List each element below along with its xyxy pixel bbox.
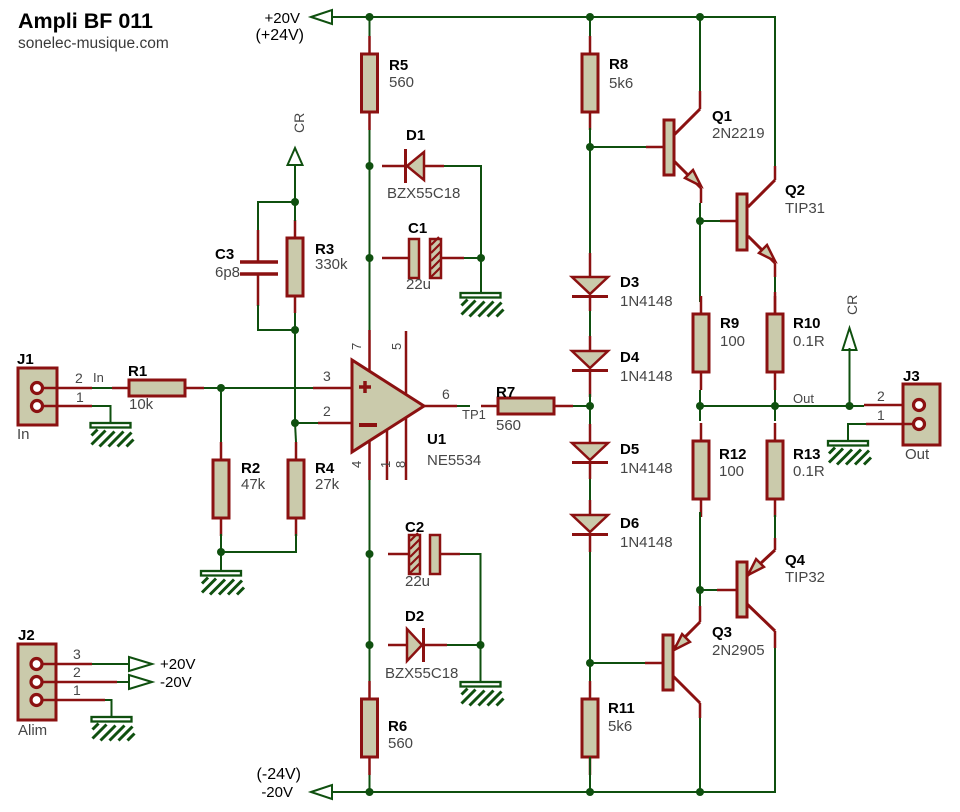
wire Q1 emitter to Q2 base node bbox=[699, 203, 701, 221]
svg-text:10k: 10k bbox=[129, 396, 154, 413]
svg-text:CR: CR bbox=[291, 113, 307, 133]
svg-text:27k: 27k bbox=[315, 476, 340, 493]
power arrow +20V at J2 bbox=[129, 657, 152, 671]
svg-text:TIP31: TIP31 bbox=[785, 200, 825, 217]
svg-text:-20V: -20V bbox=[160, 674, 192, 691]
resistor R8 bbox=[582, 36, 633, 130]
net arrow CR feedback bbox=[288, 148, 303, 165]
wire R2 bottom to ground node bbox=[220, 534, 222, 552]
wire Q3 base node to R11 bbox=[589, 663, 591, 682]
wire out node to R12 bbox=[699, 406, 701, 421]
capacitor C3 bbox=[215, 202, 295, 330]
svg-text:560: 560 bbox=[496, 417, 521, 434]
svg-text:R8: R8 bbox=[609, 56, 628, 73]
wire J1 pin1 to ground bbox=[42, 406, 111, 423]
svg-text:8: 8 bbox=[393, 461, 408, 468]
wire R4 bottom to ground wire bbox=[221, 534, 296, 552]
svg-text:330k: 330k bbox=[315, 256, 348, 273]
svg-text:R10: R10 bbox=[793, 315, 821, 332]
svg-text:2N2219: 2N2219 bbox=[712, 125, 765, 142]
wire R3 node down bbox=[294, 313, 296, 330]
wire C2 right down to D2 node bbox=[460, 554, 481, 645]
capacitor C1 bbox=[382, 220, 464, 293]
wire J2 pin2 to -20V arrow bbox=[42, 681, 129, 684]
svg-text:TP1: TP1 bbox=[462, 407, 486, 422]
svg-text:100: 100 bbox=[719, 463, 744, 480]
ground at J3 bbox=[828, 441, 871, 465]
wire R1 to op pin3 node bbox=[204, 387, 221, 389]
svg-text:NE5534: NE5534 bbox=[427, 452, 481, 469]
svg-text:5k6: 5k6 bbox=[608, 718, 632, 735]
svg-text:R2: R2 bbox=[241, 460, 260, 477]
svg-text:22u: 22u bbox=[405, 573, 430, 590]
wire V+ column top bbox=[369, 17, 371, 36]
svg-text:1: 1 bbox=[76, 389, 84, 405]
svg-text:Q2: Q2 bbox=[785, 182, 805, 199]
wire R11 bottom to rail bbox=[589, 757, 591, 792]
wire D1 cathode to ground corner bbox=[444, 166, 481, 293]
op-amp U1 NE5534 bbox=[313, 330, 481, 480]
node D2 right bbox=[477, 641, 485, 649]
svg-text:R9: R9 bbox=[720, 315, 739, 332]
svg-text:1N4148: 1N4148 bbox=[620, 534, 673, 551]
wire R13 bottom to Q4 emitter bbox=[774, 515, 776, 540]
resistor R9 bbox=[693, 296, 745, 390]
wire D5 to D6 bbox=[589, 479, 591, 500]
node Q2 base bbox=[696, 217, 704, 225]
svg-text:R6: R6 bbox=[388, 718, 407, 735]
resistor R11 bbox=[582, 681, 635, 775]
svg-text:1: 1 bbox=[877, 407, 885, 423]
transistor Q1 2N2219 bbox=[646, 91, 765, 203]
wire out row bbox=[700, 405, 864, 407]
node R3 top bbox=[291, 198, 299, 206]
svg-text:1N4148: 1N4148 bbox=[620, 368, 673, 385]
diode D5 bbox=[572, 424, 673, 479]
svg-text:1N4148: 1N4148 bbox=[620, 293, 673, 310]
node out at R10/R13 bbox=[771, 402, 779, 410]
svg-text:Q4: Q4 bbox=[785, 552, 806, 569]
svg-text:R1: R1 bbox=[128, 363, 147, 380]
ground below D2 bbox=[461, 682, 504, 706]
zener diode D2 bbox=[385, 608, 458, 682]
svg-text:6: 6 bbox=[442, 386, 450, 402]
svg-text:D6: D6 bbox=[620, 515, 639, 532]
resistor R6 bbox=[362, 681, 414, 775]
node bias mid bbox=[586, 402, 594, 410]
wire ground stub below R2 bbox=[220, 552, 222, 571]
wire R12 bottom to Q4 base node bbox=[699, 512, 701, 590]
resistor R4 bbox=[288, 442, 340, 536]
svg-text:BZX55C18: BZX55C18 bbox=[385, 665, 458, 682]
svg-text:Out: Out bbox=[793, 391, 814, 406]
svg-text:D1: D1 bbox=[406, 127, 425, 144]
wire Q4 base node down to Q3 emitter bbox=[699, 590, 701, 606]
resistor R13 bbox=[767, 423, 825, 517]
wire Q1 collector from rail bbox=[699, 17, 701, 92]
svg-text:J1: J1 bbox=[17, 351, 34, 368]
svg-text:Q1: Q1 bbox=[712, 108, 732, 125]
svg-text:C3: C3 bbox=[215, 246, 234, 263]
wire op pin2 node to op amp bbox=[295, 422, 318, 424]
node C1 left bbox=[366, 254, 374, 262]
svg-text:R11: R11 bbox=[608, 700, 635, 717]
wire Q4 base node to Q4 bbox=[700, 589, 717, 591]
svg-text:Out: Out bbox=[905, 446, 930, 463]
power arrow -20V at J2 bbox=[129, 675, 152, 689]
svg-text:(-24V): (-24V) bbox=[257, 766, 301, 783]
svg-text:0.1R: 0.1R bbox=[793, 463, 825, 480]
diode D6 bbox=[572, 500, 673, 552]
svg-text:560: 560 bbox=[388, 735, 413, 752]
wire J2 pin3 to +20V arrow bbox=[42, 663, 129, 666]
svg-text:2: 2 bbox=[73, 664, 81, 680]
resistor R12 bbox=[693, 423, 747, 517]
connector J3 bbox=[864, 368, 940, 463]
svg-text:2: 2 bbox=[75, 370, 83, 386]
ground at J2 bbox=[92, 717, 135, 741]
transistor Q2 TIP31 bbox=[720, 166, 825, 314]
zener diode D1 bbox=[382, 127, 460, 202]
svg-text:In: In bbox=[93, 370, 104, 385]
node rail R5 bbox=[366, 13, 374, 21]
svg-text:In: In bbox=[17, 426, 30, 443]
svg-text:4: 4 bbox=[349, 461, 364, 468]
power arrow +20V bbox=[311, 10, 332, 24]
wire input node to op pin3 bbox=[221, 387, 313, 389]
svg-text:5k6: 5k6 bbox=[609, 75, 633, 92]
wire Q2 base node down to R9 bbox=[699, 221, 701, 302]
wire CR arrow to R3 top node bbox=[294, 165, 296, 202]
node Q1 base bbox=[586, 143, 594, 151]
diode D4 bbox=[572, 336, 673, 397]
node rail Q1 bbox=[696, 13, 704, 21]
transistor Q4 TIP32 bbox=[717, 538, 825, 648]
wire bias chain upper bbox=[589, 147, 591, 253]
svg-text:5: 5 bbox=[389, 343, 404, 350]
wire R6 to bottom rail bbox=[369, 757, 371, 792]
wire D4 to bias mid node bbox=[589, 394, 591, 406]
node bottom rail Q3 bbox=[696, 788, 704, 796]
wire R9 bottom to out node bbox=[699, 390, 701, 406]
node out at R9/R12 bbox=[696, 402, 704, 410]
capacitor C2 bbox=[388, 519, 460, 590]
node op pin2 bbox=[291, 419, 299, 427]
svg-text:TIP32: TIP32 bbox=[785, 569, 825, 586]
svg-text:+20V: +20V bbox=[160, 656, 195, 673]
svg-text:100: 100 bbox=[720, 333, 745, 350]
svg-text:1N4148: 1N4148 bbox=[620, 460, 673, 477]
svg-text:BZX55C18: BZX55C18 bbox=[387, 185, 460, 202]
node R2 bottom bbox=[217, 548, 225, 556]
transistor Q3 2N2905 bbox=[645, 606, 765, 718]
svg-text:3: 3 bbox=[73, 646, 81, 662]
wire Q2 base node to Q2 bbox=[700, 220, 720, 222]
svg-text:Alim: Alim bbox=[18, 722, 47, 739]
svg-text:1: 1 bbox=[73, 682, 81, 698]
power arrow -20V bbox=[311, 785, 332, 799]
svg-text:Ampli BF 011: Ampli BF 011 bbox=[18, 9, 153, 33]
svg-text:D2: D2 bbox=[405, 608, 424, 625]
ground below C1 bbox=[461, 293, 504, 317]
svg-text:CR: CR bbox=[844, 295, 860, 315]
node rail R8 bbox=[586, 13, 594, 21]
wire D6 to Q3 base node bbox=[589, 552, 591, 663]
svg-text:560: 560 bbox=[389, 74, 414, 91]
svg-text:2: 2 bbox=[877, 388, 885, 404]
node D2 anode bbox=[366, 641, 374, 649]
wire CR arrow to out row bbox=[849, 348, 851, 406]
svg-text:1: 1 bbox=[378, 461, 393, 468]
wire Q1 base node to Q1 bbox=[590, 146, 646, 148]
resistor R10 bbox=[767, 296, 825, 390]
wire R3 top stub bbox=[294, 202, 296, 221]
svg-text:0.1R: 0.1R bbox=[793, 333, 825, 350]
wire D3 to D4 bbox=[589, 311, 591, 336]
wire R10 bottom to out node bbox=[774, 390, 776, 406]
svg-text:6p8: 6p8 bbox=[215, 264, 240, 281]
wire out node to R13 bbox=[774, 406, 776, 421]
wire R7 to bias node bbox=[573, 405, 590, 407]
wire -20V bottom rail bbox=[332, 648, 775, 792]
resistor R5 bbox=[362, 36, 415, 130]
svg-text:R5: R5 bbox=[389, 57, 408, 74]
wire D2 cathode to ground bbox=[447, 645, 481, 682]
svg-text:(+24V): (+24V) bbox=[256, 27, 304, 44]
svg-text:2N2905: 2N2905 bbox=[712, 642, 765, 659]
svg-text:R4: R4 bbox=[315, 460, 335, 477]
svg-text:R7: R7 bbox=[496, 384, 515, 401]
svg-text:C1: C1 bbox=[408, 220, 427, 237]
wire R8 bottom to Q1 base node bbox=[589, 128, 591, 147]
svg-text:D4: D4 bbox=[620, 349, 640, 366]
node C2 left bbox=[366, 550, 374, 558]
wire +20V top rail bbox=[330, 17, 775, 166]
svg-text:J3: J3 bbox=[903, 368, 920, 385]
wire V+ column to D1/C1/op pin7 bbox=[369, 128, 371, 330]
resistor R7 bbox=[481, 384, 573, 434]
node Q4 base bbox=[696, 586, 704, 594]
svg-text:2: 2 bbox=[323, 403, 331, 419]
wire C1 right to ground node bbox=[464, 257, 481, 259]
svg-text:47k: 47k bbox=[241, 476, 266, 493]
ground at J1 bbox=[91, 423, 134, 447]
svg-text:-20V: -20V bbox=[261, 784, 293, 801]
resistor R3 bbox=[287, 220, 348, 313]
net arrow CR at output bbox=[843, 328, 857, 350]
svg-text:U1: U1 bbox=[427, 431, 446, 448]
resistor R2 bbox=[213, 442, 266, 536]
svg-text:R13: R13 bbox=[793, 446, 821, 463]
svg-text:D5: D5 bbox=[620, 441, 639, 458]
node Q3 base bbox=[586, 659, 594, 667]
wire input node down to R2 bbox=[220, 388, 222, 442]
svg-text:3: 3 bbox=[323, 368, 331, 384]
wire op pin2 node down to R4 bbox=[295, 423, 296, 442]
wire op output bbox=[457, 405, 470, 407]
wire R8 top bbox=[589, 17, 591, 36]
wire J1 pin2 to R1 bbox=[42, 387, 113, 390]
diode D3 bbox=[572, 253, 673, 311]
wire V- column op pin4 to C2/D2/R6 bbox=[369, 480, 371, 682]
svg-text:22u: 22u bbox=[406, 276, 431, 293]
node R1 right bbox=[217, 384, 225, 392]
svg-text:+20V: +20V bbox=[265, 10, 300, 27]
connector J2 bbox=[18, 627, 81, 739]
wire J3 pin1 to ground bbox=[848, 424, 914, 441]
connector J1 bbox=[17, 351, 84, 443]
node bottom rail R6 bbox=[366, 788, 374, 796]
ground below R2/R4 bbox=[201, 571, 244, 595]
wire R3 bottom node to op pin2 node bbox=[294, 330, 296, 423]
node R3 bottom bbox=[291, 326, 299, 334]
node C1 right bbox=[477, 254, 485, 262]
wire Q3 base node to Q3 bbox=[590, 662, 645, 664]
resistor R1 bbox=[112, 363, 204, 413]
node D1 anode bbox=[366, 162, 374, 170]
svg-text:sonelec-musique.com: sonelec-musique.com bbox=[18, 35, 169, 52]
node out at CR bbox=[846, 402, 854, 410]
svg-text:7: 7 bbox=[349, 343, 364, 350]
wire Q3 collector to rail bbox=[699, 718, 701, 792]
wire bias mid to D5 bbox=[589, 406, 591, 424]
svg-text:D3: D3 bbox=[620, 274, 639, 291]
node bottom rail R11 bbox=[586, 788, 594, 796]
svg-text:J2: J2 bbox=[18, 627, 35, 644]
svg-text:R12: R12 bbox=[719, 446, 747, 463]
svg-text:Q3: Q3 bbox=[712, 624, 732, 641]
svg-text:C2: C2 bbox=[405, 519, 424, 536]
wire J2 pin1 to ground bbox=[42, 700, 112, 717]
